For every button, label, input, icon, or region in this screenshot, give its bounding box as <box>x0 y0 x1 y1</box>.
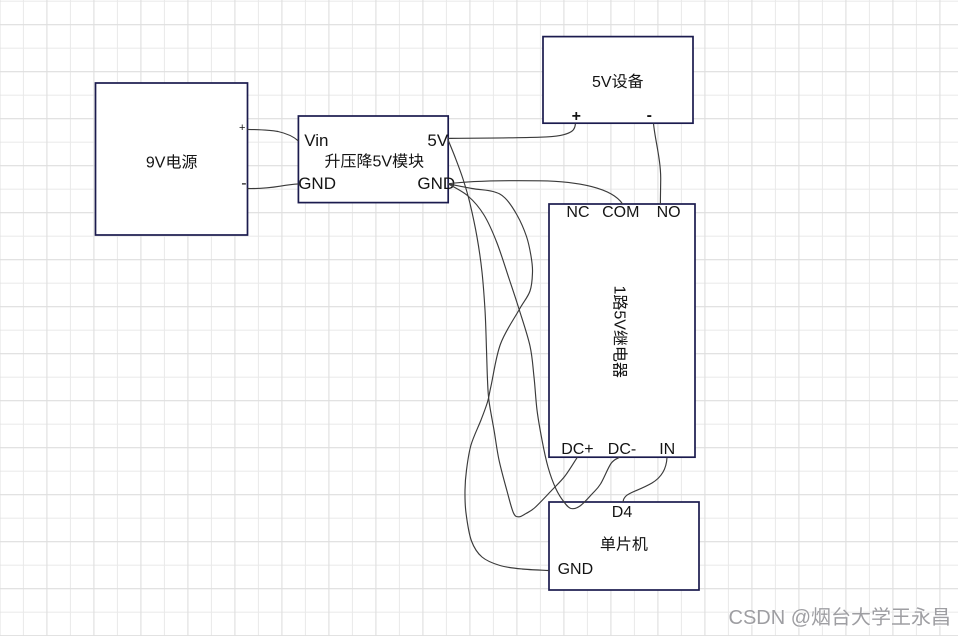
label 9V电源 <box>146 154 197 171</box>
svg-text:1: 1 <box>610 286 627 295</box>
wire W6: module 5V to relay DC+ (loop) <box>448 140 577 517</box>
svg-text:5V: 5V <box>427 131 448 150</box>
svg-text:5V: 5V <box>592 74 612 91</box>
pin label 5V (module output) <box>427 131 448 150</box>
pin label DC+ <box>561 441 593 458</box>
wire W4: 5V device - to relay NO <box>654 124 661 204</box>
label 1路5V继电器 (rotated) <box>610 286 627 378</box>
svg-text:+: + <box>239 122 245 134</box>
svg-text:IN: IN <box>659 441 675 458</box>
svg-text:GND: GND <box>558 561 594 578</box>
label 单片机 <box>601 536 648 551</box>
pin label COM <box>602 204 639 221</box>
pin + of 9V supply <box>239 122 245 134</box>
pin + of 5V device <box>572 108 581 125</box>
svg-text:-: - <box>241 175 246 192</box>
wire W8: module GND to mcu GND (long loop) <box>448 184 549 571</box>
block B3: 5V device (5V设备) <box>543 37 693 124</box>
wire W9: relay IN to mcu D4 <box>623 458 667 503</box>
pin label NO <box>657 204 681 221</box>
pin - of 9V supply <box>241 175 246 192</box>
svg-text:DC+: DC+ <box>561 441 593 458</box>
svg-text:NO: NO <box>657 204 681 221</box>
pin label DC- <box>608 441 636 458</box>
svg-text:D4: D4 <box>612 504 633 521</box>
block B2: buck-boost 5V module (升压降5V模块) <box>298 116 448 203</box>
svg-text:DC-: DC- <box>608 441 636 458</box>
svg-text:GND: GND <box>298 174 336 193</box>
pin label IN <box>659 441 675 458</box>
pin label GND (module left) <box>298 174 336 193</box>
block B5: microcontroller (单片机) <box>549 502 699 590</box>
wire W3: module 5V to 5V device + <box>448 124 575 139</box>
pin label GND (mcu) <box>558 561 594 578</box>
pin label GND (module right) <box>417 174 455 193</box>
watermark CSDN @烟台大学王永昌 <box>730 608 950 630</box>
svg-text:5V: 5V <box>373 154 393 171</box>
svg-text:NC: NC <box>566 204 589 221</box>
svg-text:5V: 5V <box>610 310 627 330</box>
svg-text:Vin: Vin <box>304 131 328 150</box>
label 5V设备 <box>592 74 643 91</box>
svg-text:-: - <box>647 107 652 124</box>
svg-text:CSDN @: CSDN @ <box>729 607 812 629</box>
pin label Vin <box>304 131 328 150</box>
label 升压降5V模块 <box>325 153 423 170</box>
block B4: 1-channel 5V relay (1路5V继电器) <box>549 204 695 457</box>
pin - of 5V device <box>647 107 652 124</box>
wire W7: module GND to relay DC- (loop) <box>448 184 619 509</box>
watermark text gray layer <box>729 607 949 629</box>
svg-text:9V: 9V <box>146 155 166 172</box>
svg-text:COM: COM <box>602 204 639 221</box>
svg-text:+: + <box>572 108 581 125</box>
block B1: 9V power supply (9V电源) <box>96 83 248 235</box>
wire W1: 9V + to module Vin <box>247 129 298 141</box>
wire W2: 9V - to module GND left <box>247 184 298 189</box>
wire W5: module GND to relay COM <box>448 181 623 204</box>
pin label NC <box>566 204 589 221</box>
pin label D4 <box>612 504 633 521</box>
